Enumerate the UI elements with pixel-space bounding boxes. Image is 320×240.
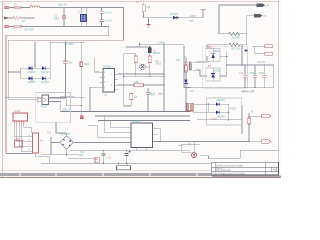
svg-text:1N4148: 1N4148 [217,117,226,119]
wire B2 right [73,142,131,144]
svg-text:10R S237: 10R S237 [24,30,35,32]
svg-text:UC3842: UC3842 [103,67,112,69]
wire U1 gnd [90,87,100,111]
thermistor RT1 [13,25,35,32]
wire step [68,158,95,163]
wires U5 left [88,116,127,137]
bridge left rail [20,68,22,78]
opto U3 [37,95,48,108]
label VS red [252,45,272,48]
resistor R1 [136,3,151,12]
bottom rail 1 [70,150,190,151]
snubber top wire [184,45,207,49]
capacitor C1 [54,4,67,26]
svg-text:+325V: +325V [189,16,196,18]
earth symbol [146,18,150,28]
svg-text:100n: 100n [259,73,265,75]
wire secondary top [196,56,207,62]
wire U1 out [118,73,164,75]
electrolytic C15 [94,158,99,162]
diode D3 [28,77,37,85]
output rail [227,61,274,66]
wire secondary bottom [196,70,207,76]
diode D2 [41,66,50,74]
transistor Q1 [182,142,200,158]
diode D1 [28,66,37,74]
sheet frame left border [1,1,3,177]
test point [80,97,83,118]
hier label FB [254,14,267,18]
svg-text:R10 2M: R10 2M [232,38,240,40]
op-amp U1 PWM controller [100,67,119,97]
capacitor C13 [79,150,106,163]
capacitor C12 [259,65,267,88]
bottom ground bus [41,163,212,164]
earth connector P3 [5,17,14,19]
svg-text:Title: Flyback supply 5V 2A: Title: Flyback supply 5V 2A Rev [213,172,246,175]
svg-text:C10: C10 [239,73,244,75]
svg-text:HV: HV [266,6,270,8]
wire [21,26,100,28]
svg-text:1N4148: 1N4148 [217,100,226,102]
resistor R5b [134,54,137,77]
power flag VCC [189,9,206,22]
diode D10 [184,72,188,112]
transformer T1 [184,46,196,88]
bridge bottom rail [21,77,51,79]
wire diode cathodes join [207,49,228,77]
wire bottom fb [153,141,250,142]
svg-text:Vout 5V/2A: Vout 5V/2A [242,91,254,94]
resistor R12 [248,113,251,142]
wire drain [139,43,184,47]
wire vcc to U1 [95,58,100,72]
connector J1 [4,4,9,9]
resistor R10 [219,32,247,39]
feedback box [207,98,242,125]
wire startup [144,12,204,18]
bridge B2 diamond [60,134,76,149]
label VS2 red [245,46,273,55]
svg-text:SS34: SS34 [214,51,220,53]
svg-text:C13: C13 [80,152,85,154]
connector CON4 [117,163,131,170]
svg-text:FB: FB [264,16,267,18]
svg-text:GND_P: GND_P [62,109,70,111]
svg-text:22R: 22R [176,60,181,62]
capacitor C14 polarized [107,150,131,163]
wire B2 left [50,137,59,155]
wires P2 to U4 [14,124,31,151]
wire opto in [8,71,42,101]
wire title step [178,142,278,159]
hier label out1 [248,114,271,117]
svg-text:IRF840: IRF840 [153,53,161,55]
resistor R9 [130,94,138,107]
sheet frame right border [278,1,280,178]
net label texts [147,93,254,114]
wire U4 bottom [35,154,50,164]
svg-text:PC817: PC817 [41,106,49,108]
bus 2 [95,115,190,117]
wire earth left column [5,97,32,154]
wire label 1 [219,5,257,34]
primary gnd rail [6,97,85,98]
wire loop 2 [8,8,123,73]
wire opto out bottom [49,102,61,112]
capacitor C10 [239,65,247,88]
capacitor C2 Y [100,8,113,20]
diode D5 box [206,47,221,62]
bridge right rail [49,68,51,78]
wire DC+ [50,42,84,69]
transistor Q2 [148,42,165,56]
aux rail resistor R8 [176,58,187,72]
diode D9 [170,14,179,20]
svg-text:R11 2M: R11 2M [232,48,240,50]
wire [40,7,100,9]
connector J2 [5,25,9,28]
wire around Q1 [178,145,183,147]
svg-text:470u: 470u [250,73,256,75]
wire [21,17,34,19]
wire B2 top [47,123,66,136]
IC U5 [127,121,160,150]
sheet frame bottom border [0,170,281,177]
diode D6 box [206,66,221,81]
wire vout sense drop [241,45,242,66]
svg-text:File: smps.sch: File: smps.sch [216,170,231,172]
resistor R7 source sense [148,53,161,75]
wire L row [9,7,14,9]
svg-text:DC 325V: DC 325V [65,44,75,46]
wire primary return [184,87,191,89]
resistor R11 [207,43,247,50]
resistor R2 [13,17,26,23]
svg-text:Switch mode power supply: Switch mode power supply [216,164,244,167]
diode D8 [193,109,237,122]
capacitor C4 bulk [63,42,73,97]
capacitor C3 Y [100,20,113,27]
wire N row [9,26,14,28]
title block [212,162,279,175]
wire [21,7,30,9]
primary ground bus [61,111,190,112]
fuse F1 [14,4,21,8]
svg-text:Vout 5V: Vout 5V [257,61,266,64]
IC U4 [28,133,44,153]
svg-text:SS34: SS34 [214,71,220,73]
wire box left [123,54,164,106]
svg-text:LM7805: LM7805 [132,121,141,123]
text vout5v [242,91,254,94]
svg-text:100u: 100u [79,155,85,157]
wire opto out top [49,98,82,106]
svg-text:B2 DF06: B2 DF06 [61,134,71,136]
indicator LED box [15,139,23,147]
diode D4 [41,77,50,85]
inductor L1 [30,4,41,7]
svg-text:1N4007: 1N4007 [28,82,37,84]
svg-text:1N4007: 1N4007 [41,72,50,74]
choke T2 [78,8,87,27]
capacitor C6 [146,88,155,112]
connector J3 label [188,144,192,146]
gnd stub [60,97,75,112]
secondary section box [203,47,248,89]
svg-text:CON2: CON2 [14,111,21,113]
svg-text:PC817: PC817 [230,109,238,111]
bus 3 [98,120,190,122]
hier label HV+ [257,4,270,8]
svg-text:10R: 10R [134,82,139,84]
svg-text:1N4007: 1N4007 [41,82,50,84]
wire fb bus [197,104,242,120]
sheet frame top border [1,1,280,2]
secondary gnd rail [184,65,274,93]
resistor R6 [118,82,164,86]
svg-text:390k: 390k [84,64,90,66]
svg-text:GND_A: GND_A [147,93,155,96]
transistor Q3 [140,64,150,69]
svg-text:C3 4n7: C3 4n7 [105,21,113,23]
aux winding T1b [187,91,195,111]
diode D7 [193,100,229,112]
svg-text:Vaux: Vaux [158,94,164,96]
hier label out2 [248,140,271,143]
svg-text:UF4007: UF4007 [170,14,179,16]
wire loop from filter output down left [6,27,109,98]
wire sense column [163,44,164,111]
svg-text:100n X2: 100n X2 [58,4,67,6]
wire bridge AC in [34,42,36,68]
connector P2 [13,111,28,124]
capacitor C11 [250,65,258,88]
wire left long [2,162,4,164]
svg-text:C2 4n7: C2 4n7 [105,12,113,14]
svg-text:100n: 100n [54,19,60,21]
wire label 2 [247,16,254,45]
wire B2 bottom [41,149,78,155]
svg-text:C14: C14 [107,158,112,160]
resistor R3 [80,42,90,97]
svg-text:RCD: RCD [208,48,213,50]
wire gate [125,46,148,48]
bridge top rail [21,67,51,69]
wire to bridge [8,71,20,73]
svg-text:1N4007: 1N4007 [28,72,37,74]
wire fb right column [241,105,243,134]
svg-text:0R22: 0R22 [156,64,162,66]
svg-text:LED: LED [15,139,20,141]
feedback section box [36,93,71,123]
